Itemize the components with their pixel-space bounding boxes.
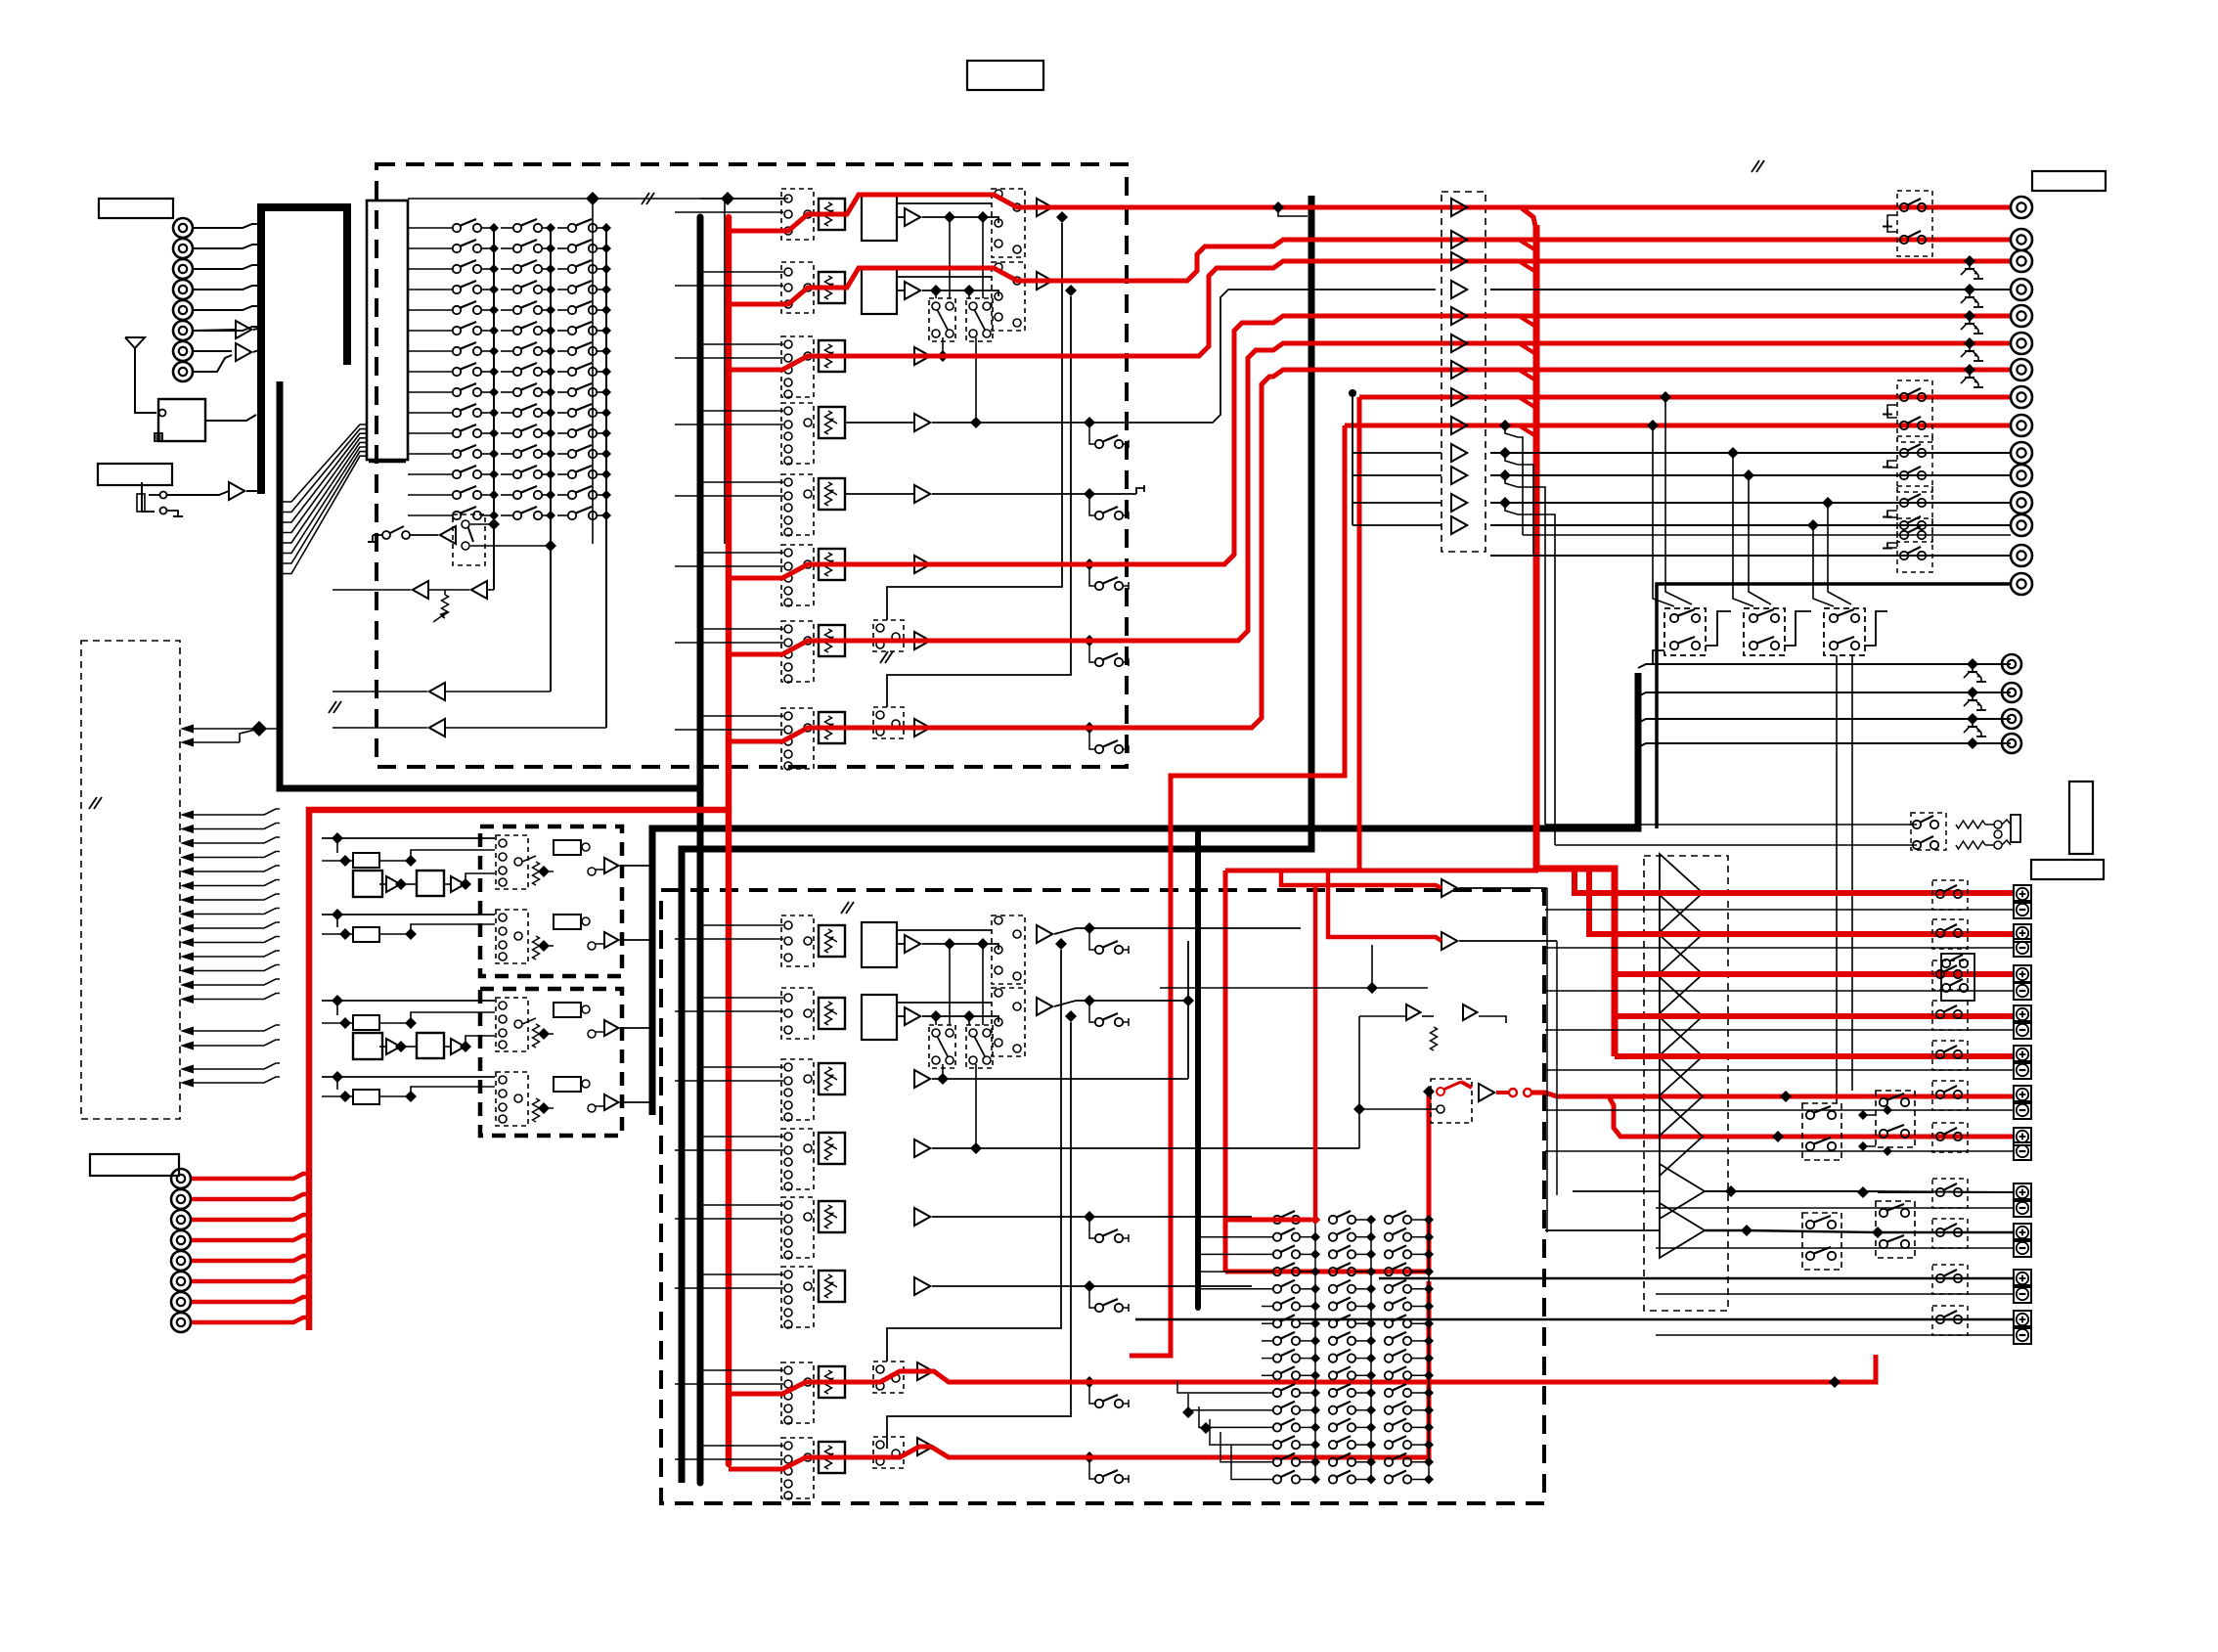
power amp input stubs red xyxy=(1538,868,1575,870)
buffer inputs black rows xyxy=(1352,394,1353,525)
matrix feed diamonds xyxy=(1182,1406,1194,1418)
dashed box DAC block B xyxy=(480,989,622,1136)
buffer amp loop A xyxy=(1442,932,1457,950)
wire strip inputs y=1413 xyxy=(700,1369,783,1371)
attenuator row y=364 xyxy=(819,340,845,372)
amp after delay y=290 xyxy=(905,282,920,299)
wire strip inputs y=958 xyxy=(700,924,783,926)
switch box post row y=290 xyxy=(992,262,1025,331)
bus to DSP section xyxy=(280,381,700,788)
impedance selector relay xyxy=(1941,954,1974,1001)
zone2 row5 output xyxy=(932,1216,1252,1218)
attenuator row y=505 xyxy=(819,478,845,510)
switch box volume select row y=215 xyxy=(781,189,814,240)
label box outputs (top right) xyxy=(2032,171,2106,191)
jack group multi-channel inputs xyxy=(171,1169,191,1188)
tuner box xyxy=(158,399,205,441)
speaker return wires xyxy=(1545,909,2013,911)
red signal paths main strip xyxy=(729,195,1066,231)
switch box volume select row y=505 xyxy=(781,474,814,535)
wire bypass feed xyxy=(1160,987,1428,989)
red tap to headphone bus row 267 xyxy=(1519,261,1534,271)
attenuator row y=1032 xyxy=(819,998,845,1029)
jack group main outputs xyxy=(2011,197,2032,218)
red bus main vertical (input select) xyxy=(726,217,732,1464)
switch box volume select row y=1244 xyxy=(781,1197,814,1258)
DAC wires at 845 xyxy=(322,837,495,839)
wire strip inputs y=290 xyxy=(700,271,783,273)
bus main vertical center-left xyxy=(697,217,704,1483)
label box speakers xyxy=(2031,860,2104,879)
wire strip inputs y=1490 xyxy=(700,1445,783,1447)
zone amp buffer xyxy=(1479,1084,1494,1101)
record selector matrix 3x16 xyxy=(1273,1216,1281,1224)
transistor mute rear pre-out xyxy=(1967,658,1978,670)
slash bundle marks xyxy=(642,193,649,204)
tape monitor dashed switch box xyxy=(453,514,485,565)
switch box volume select row y=1032 xyxy=(781,988,814,1039)
amp after delay y=958 xyxy=(905,935,920,953)
bypass switch to zone amps xyxy=(1431,1079,1472,1123)
switch box post row y=1032 xyxy=(992,988,1025,1056)
amp strip row 4 xyxy=(914,414,930,431)
zone2 amp row8 xyxy=(917,1438,933,1455)
transistor mutes output rows xyxy=(1964,255,1975,267)
zone2 rows7-8 mid switch boxes xyxy=(873,1362,904,1393)
wire analog inputs to trunk xyxy=(194,224,258,228)
wire hidden vertical under red bus xyxy=(724,199,726,544)
dashed box output buffer column xyxy=(1442,192,1486,552)
wire tuner out xyxy=(205,415,256,421)
red bus multi-channel input trunk xyxy=(309,810,729,1330)
rec-out selector box 2 xyxy=(1744,608,1785,655)
dashed box input selector / DSP section (top center) xyxy=(377,164,1127,767)
monitor out buffer pair with level pot xyxy=(413,581,428,599)
record feed taps rows 1-2 xyxy=(1272,201,1284,213)
buffer pair and trim xyxy=(1406,1005,1420,1020)
attenuator row y=958 xyxy=(819,925,845,957)
wire bus tap row1 xyxy=(408,198,788,200)
amp strip row 8 xyxy=(914,719,930,737)
mute relay box rows 514-537 xyxy=(1897,486,1932,542)
selector IC (vertical rectangle) xyxy=(367,201,408,460)
zone selector wires xyxy=(1863,1114,1876,1116)
red paths zone2 rows 7-8 xyxy=(729,1382,849,1394)
wire strip inputs y=577 xyxy=(700,552,783,554)
black output rows xyxy=(1490,289,2011,290)
zone2 row4 output xyxy=(932,1147,1359,1149)
rec-out selector box 1 xyxy=(1664,608,1706,655)
zone2 amp row 4 xyxy=(914,1139,930,1157)
record selector contact boxes xyxy=(929,298,955,341)
attenuator row y=432 xyxy=(819,407,845,438)
wire strip inputs y=432 xyxy=(700,410,783,412)
wire strip row5 end bracket xyxy=(932,493,1136,495)
amp strip row 7 xyxy=(914,632,930,649)
amp strip row 3 xyxy=(914,347,930,365)
wire strip inputs y=505 xyxy=(700,481,783,483)
buffer amp to matrix xyxy=(1442,879,1457,897)
switch box post row y=215 xyxy=(992,189,1025,257)
red bus mid vertical xyxy=(1130,425,1345,1356)
staircase taps to zone2/phones xyxy=(1499,420,1511,431)
DAC IC group at 1011 xyxy=(353,1015,379,1030)
DAC pot+level at 845 xyxy=(533,862,540,885)
amp post row y=1032 xyxy=(1037,998,1052,1015)
left-facing buffer B xyxy=(429,719,445,737)
mute relay box rows 463-486 xyxy=(1897,436,1932,492)
switch box volume select row y=364 xyxy=(781,336,814,397)
wire strip inputs y=1315 xyxy=(700,1273,783,1275)
delay DSP box row y=1032 xyxy=(862,995,897,1040)
wire rows7-8 u-link xyxy=(887,223,1062,620)
wire strip inputs y=655 xyxy=(700,628,783,630)
DAC out buffer at 845 xyxy=(604,858,618,873)
zone2 amp row 3 xyxy=(914,1070,930,1088)
bus branch to record selector matrix xyxy=(1195,828,1201,1308)
amp post row y=958 xyxy=(1037,925,1052,943)
amp after delay y=1032 xyxy=(905,1007,920,1025)
jack rear pre-out group xyxy=(2002,654,2021,674)
buffer amp tuner R xyxy=(236,343,251,361)
attenuator row y=1244 xyxy=(819,1201,845,1232)
DAC pot+level at 1011 xyxy=(533,1024,540,1048)
DAC IC group at 845 xyxy=(353,853,379,868)
mute relay box rows 212-245 xyxy=(1897,191,1932,256)
wire delay outputs y=958 xyxy=(922,944,998,950)
amp strip row 6 xyxy=(914,556,930,573)
red vertical tap to power amp feed xyxy=(1521,207,1536,231)
rec-out selector box 3 xyxy=(1824,608,1865,655)
red bus to power amps xyxy=(1536,225,1615,1056)
red net matrix loop xyxy=(1223,871,1228,1272)
red net speaker feed horizontal xyxy=(1225,869,1538,873)
switch box volume select row y=958 xyxy=(781,915,814,966)
dashed box DSP engine (left) xyxy=(81,641,180,1119)
zone2 row3 output xyxy=(932,1078,1188,1080)
attenuator row y=655 xyxy=(819,625,845,656)
red tap to headphone bus row 212 xyxy=(729,268,1066,304)
wire delay outputs y=215 xyxy=(922,217,998,223)
grid collector verticals xyxy=(493,228,495,590)
delay DSP box row y=215 xyxy=(862,196,897,241)
switch box volume select row y=655 xyxy=(781,621,814,682)
amp post row y=215 xyxy=(1037,199,1052,216)
tape monitor buffer xyxy=(440,526,456,544)
DAC wires at 1011 xyxy=(322,1000,495,1002)
headphone switch box xyxy=(1911,813,1946,850)
switch box aux row y=744 xyxy=(873,707,904,738)
zone speaker selector switches xyxy=(1802,1103,1841,1160)
red feeds from below for output rows 406,435 xyxy=(1359,395,2011,400)
delay DSP box row y=958 xyxy=(862,922,897,967)
DAC switch boxes at 845 xyxy=(496,835,528,889)
zone speaker black feeds xyxy=(1705,1191,2013,1192)
amp after delay y=215 xyxy=(905,208,920,226)
switch box volume select row y=1103 xyxy=(781,1059,814,1120)
zone2 amp row7 xyxy=(917,1362,933,1380)
zone2 mute switches xyxy=(1084,922,1095,934)
wire delay outputs y=290 xyxy=(922,290,998,296)
dashed box power amplifier block xyxy=(1644,856,1728,1311)
headphone jack xyxy=(1994,821,2002,828)
red tap to headphone bus row 378 xyxy=(1519,370,1534,380)
zone2 rows7-8 u-link xyxy=(887,950,1061,1362)
mute switches main strip xyxy=(1084,417,1095,428)
antenna xyxy=(125,337,145,348)
label box top-left INPUT xyxy=(99,199,173,218)
zone lower minus feeds xyxy=(1656,1207,2013,1209)
label phono cartridge jack xyxy=(142,482,155,512)
zone2 row1 output to buffer xyxy=(1054,928,1301,934)
switch grid source select (3 columns x 15 rows) xyxy=(408,227,452,229)
amp strip row 5 xyxy=(914,485,930,503)
wire strip inputs y=364 xyxy=(700,343,783,345)
DAC switch boxes at 1011 xyxy=(496,998,528,1051)
output buffer column amps xyxy=(1451,199,1467,216)
tape monitor switch xyxy=(382,531,390,539)
label box page title xyxy=(967,61,1043,90)
switch box volume select row y=577 xyxy=(781,545,814,605)
binding post pairs xyxy=(2014,885,2031,903)
bus zone2 output (row 597) xyxy=(1657,584,2011,828)
attenuator row y=1490 xyxy=(819,1442,845,1473)
red tap to headphone bus row 245 xyxy=(1519,240,1534,249)
wire record selector verticals xyxy=(935,1016,937,1025)
jack group analog inputs 1-8 xyxy=(173,218,193,238)
attenuator row y=215 xyxy=(819,199,845,230)
switch box post row y=958 xyxy=(992,915,1025,984)
speaker relay switches xyxy=(1932,880,1968,910)
wire DSP input lines xyxy=(189,809,280,815)
attenuator row y=290 xyxy=(819,272,845,303)
wire strip inputs y=1244 xyxy=(700,1204,783,1206)
zone2 row6 output xyxy=(932,1285,1252,1287)
wire strip inputs y=744 xyxy=(700,715,783,717)
headphone resistors xyxy=(1956,821,1985,828)
dashed box second zone section (bottom center) xyxy=(661,890,1544,1503)
red tap to headphone bus row 351 xyxy=(1519,343,1534,353)
label box phones vertical xyxy=(2069,781,2093,854)
bus DSP return to second zone xyxy=(682,196,1311,1483)
switch box aux row y=655 xyxy=(873,620,904,651)
attenuator row y=1413 xyxy=(819,1366,845,1398)
label box phono xyxy=(98,464,172,485)
wire strip inputs y=215 xyxy=(700,198,783,200)
matrix left feed wires xyxy=(1198,1236,1272,1238)
switch box volume select row y=432 xyxy=(781,403,814,464)
switch box volume select row y=1490 xyxy=(781,1438,814,1498)
power amp triangles xyxy=(1660,854,1703,932)
red to zone2 speaker rows xyxy=(1509,1089,1517,1096)
red matrix row segments xyxy=(1225,1218,1311,1223)
switch box volume select row y=1315 xyxy=(781,1267,814,1327)
zone2 amp row 6 xyxy=(914,1277,930,1295)
attenuator row y=1103 xyxy=(819,1063,845,1094)
wire strip row4 riser to output row 296 xyxy=(932,290,1436,423)
label box multi-channel input xyxy=(90,1154,179,1176)
left-facing buffer A xyxy=(429,683,445,700)
zone2 row2 output to buffer xyxy=(1054,1001,1188,1006)
zone2 amp row 5 xyxy=(914,1208,930,1226)
switch box volume select row y=1413 xyxy=(781,1362,814,1423)
wire strip inputs y=1103 xyxy=(700,1066,783,1068)
attenuator row y=577 xyxy=(819,549,845,580)
red tap to headphone bus row 323 xyxy=(1519,316,1534,326)
dashed box DAC block A xyxy=(480,826,622,976)
headphone drive amps xyxy=(1660,1164,1705,1219)
matrix verticals xyxy=(1314,1220,1316,1480)
rec-out selector bottom links xyxy=(1653,650,1664,664)
amp post row y=290 xyxy=(1037,272,1052,290)
wire strip inputs y=1174 xyxy=(700,1136,783,1138)
wire record selector verticals xyxy=(935,290,937,298)
switch box volume select row y=744 xyxy=(781,708,814,769)
bus DAC output to speaker-out jacks xyxy=(652,673,1638,1115)
mute relay box rows 406-435 xyxy=(1897,380,1932,442)
zone return verticals xyxy=(1546,888,1548,1232)
attenuator row y=744 xyxy=(819,712,845,743)
bus analog input trunk (J-shape top-left) xyxy=(261,207,347,494)
mute relay box rows 547-568 xyxy=(1897,518,1932,572)
wire DSP feedback arrows xyxy=(189,728,259,730)
slash mark bundle 1 xyxy=(329,701,336,713)
record selector contact boxes xyxy=(929,1025,955,1068)
switch box volume select row y=290 xyxy=(781,262,814,313)
switch box volume select row y=1174 xyxy=(781,1129,814,1189)
buffer amp phono xyxy=(229,482,244,500)
wire fan rear pre-out jacks xyxy=(1638,664,2011,668)
black rows 4-5 main strip xyxy=(845,422,914,424)
wire strip inputs y=1032 xyxy=(700,997,783,999)
wire fan trunk to selector xyxy=(280,424,367,502)
wire delay outputs y=1032 xyxy=(922,1016,998,1022)
attenuator row y=1315 xyxy=(819,1271,845,1302)
wire verticals to rec-out selectors xyxy=(1653,425,1674,606)
delay DSP box row y=290 xyxy=(862,269,897,314)
buffer amp tuner L xyxy=(236,321,251,338)
attenuator row y=1174 xyxy=(819,1133,845,1164)
DAC out buffer at 1011 xyxy=(604,1020,618,1036)
